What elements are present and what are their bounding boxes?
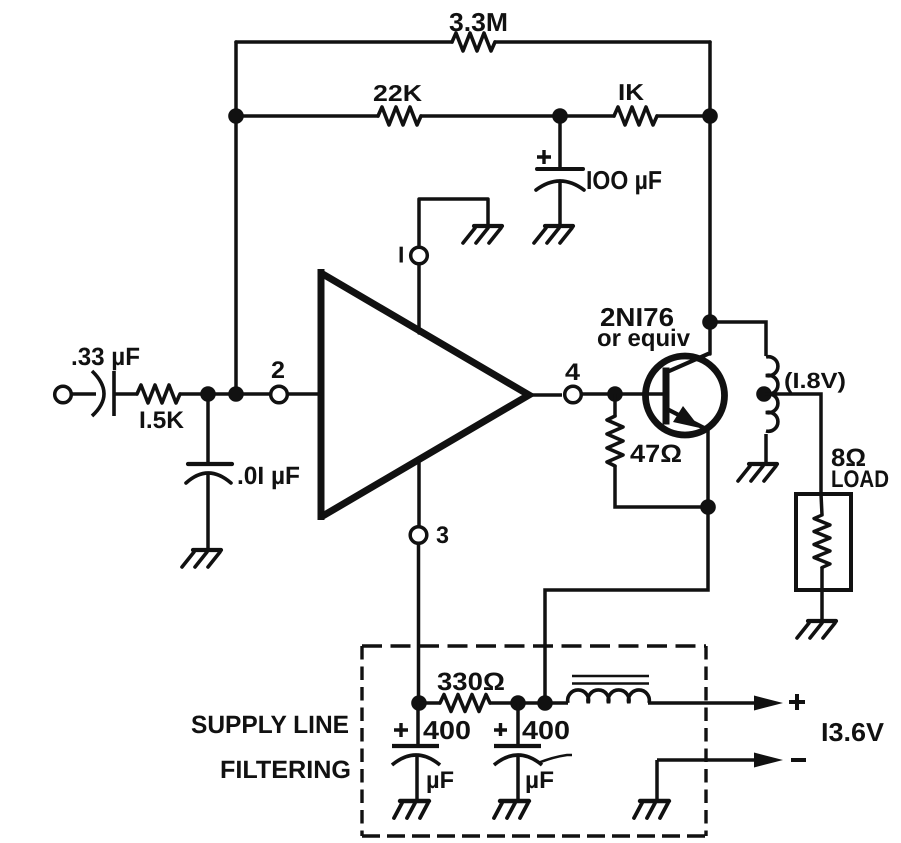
wire second rail middle segment — [421, 114, 614, 118]
choke coil bumps — [568, 690, 650, 703]
node dot base junction — [607, 386, 623, 402]
wire load top lead — [821, 494, 822, 515]
choke coil core lines — [572, 676, 649, 684]
plus output arrowhead — [754, 696, 783, 711]
svg-text:3.3M: 3.3M — [449, 7, 508, 37]
ground cap2 — [494, 801, 529, 818]
svg-text:µF: µF — [426, 767, 454, 794]
svg-text:or equiv: or equiv — [597, 325, 691, 352]
wire pin2 to triangle — [289, 392, 321, 396]
wire right vertical rail — [708, 42, 712, 354]
wire collector node to coil — [710, 322, 766, 356]
wire 100uF top lead — [558, 116, 562, 167]
svg-text:3: 3 — [436, 522, 449, 549]
pin 4 terminal circle — [565, 386, 582, 403]
capacitor 100uF plates — [537, 167, 583, 171]
supply filter dashed box — [362, 646, 706, 836]
wire .01uF top lead — [186, 401, 232, 549]
wire resistor to op-amp input — [180, 392, 289, 396]
wire emitter down — [545, 428, 708, 703]
capacitor .33uF straight plate — [112, 371, 116, 416]
node dot coil tap — [756, 386, 772, 402]
wire 100uF bottom lead — [558, 181, 562, 225]
node dot emitter branch junction — [537, 695, 553, 711]
ground 100uF — [534, 226, 573, 243]
capacitor 400uF #2 leads — [516, 703, 520, 800]
svg-text:SUPPLY LINE: SUPPLY LINE — [191, 711, 349, 739]
svg-text:IOO µF: IOO µF — [586, 165, 662, 195]
label minus — [791, 758, 806, 762]
node dot input junction — [200, 386, 216, 402]
label + 400 #1 — [394, 723, 408, 737]
svg-text:2: 2 — [271, 357, 285, 384]
wire cap to resistor — [114, 392, 137, 396]
input terminal circle — [55, 386, 72, 403]
ground load — [797, 621, 836, 638]
wire 47ohm top lead — [613, 394, 617, 416]
capacitor 400uF #2 plates — [494, 744, 541, 748]
transistor base bar — [663, 368, 670, 425]
wire top feedback rail right segment — [495, 40, 710, 44]
ground .01uF — [182, 550, 221, 567]
pin 3 wire down to filter box — [417, 544, 421, 703]
node dot collector junction — [702, 314, 718, 330]
svg-text:47Ω: 47Ω — [630, 440, 682, 468]
svg-text:22K: 22K — [373, 80, 422, 106]
wire pin1 to op-amp top edge — [417, 264, 421, 333]
node dot 100uF junction — [552, 108, 568, 124]
wire top feedback rail left segment — [236, 40, 452, 44]
node dot filter input — [411, 695, 427, 711]
capacitor 400uF #1 leads — [417, 703, 418, 800]
svg-text:400: 400 — [423, 715, 471, 745]
stray pen mark — [538, 755, 572, 763]
ground cap1 — [394, 801, 429, 818]
wire to plus output — [648, 701, 758, 705]
svg-text:I: I — [398, 242, 404, 268]
svg-text:I3.6V: I3.6V — [821, 717, 885, 747]
wire second rail left segment — [236, 114, 378, 118]
node dot cap2 junction — [510, 695, 526, 711]
op-amp U1 triangle — [321, 269, 529, 520]
resistor 1.5K zigzag — [137, 385, 180, 403]
svg-text:400: 400 — [522, 715, 570, 745]
svg-text:330Ω: 330Ω — [437, 668, 505, 696]
pin 1 terminal circle — [411, 247, 428, 264]
wire tap to load — [765, 394, 821, 494]
svg-text:FILTERING: FILTERING — [220, 756, 351, 784]
wire input to coupling cap — [72, 392, 96, 396]
wire filter rail — [419, 701, 440, 705]
svg-text:.0I µF: .0I µF — [237, 462, 300, 490]
wire op-amp output to pin4 — [529, 393, 562, 397]
wire left vertical rail — [234, 42, 238, 394]
resistor 330ohm zigzag — [440, 695, 490, 712]
svg-text:4: 4 — [565, 359, 581, 386]
svg-text:LOAD: LOAD — [831, 466, 889, 493]
transistor Q1 2N176 circle — [646, 356, 725, 435]
ground coil — [738, 464, 777, 481]
node dot top-right rail — [702, 108, 718, 124]
wire pin4 to transistor base — [582, 392, 665, 396]
wire to minus output — [657, 760, 758, 799]
svg-text:.33 µF: .33 µF — [71, 343, 140, 371]
resistor 1K zigzag — [614, 107, 657, 125]
capacitor .33uF curved plate — [92, 371, 104, 416]
label + 400 #2 — [494, 723, 507, 736]
load box — [796, 494, 851, 590]
svg-text:I.5K: I.5K — [139, 407, 185, 434]
minus output arrowhead — [754, 753, 783, 768]
transistor collector line — [667, 354, 709, 373]
pin 2 terminal circle — [271, 386, 288, 403]
wire .01uF bottom lead — [206, 474, 210, 549]
label plus — [789, 694, 805, 710]
transistor emitter line with arrow — [667, 409, 708, 430]
resistor 22K zigzag — [378, 107, 421, 125]
wire pin1 to ground — [419, 199, 488, 245]
inductor output coil — [766, 357, 778, 432]
wire load bottom lead — [820, 567, 824, 620]
label + of 100uF — [537, 150, 551, 164]
svg-text:IK: IK — [618, 79, 644, 105]
svg-text:µF: µF — [525, 767, 554, 794]
ground pin1 — [463, 226, 502, 243]
wire 47ohm bottom lead — [615, 466, 704, 507]
resistor 3.3M zigzag — [452, 33, 495, 51]
wire 330 to coil — [490, 701, 568, 705]
resistor 8ohm load zigzag — [814, 515, 830, 568]
ground minus — [634, 801, 669, 818]
wire coil bottom to ground — [764, 434, 768, 463]
node dot top-left rail — [228, 108, 244, 124]
resistor 47ohm zigzag — [607, 416, 623, 466]
node dot emitter/47ohm junction — [700, 499, 716, 515]
wire second rail right segment — [657, 114, 710, 118]
pin 3 wire from op-amp bottom edge — [417, 459, 421, 526]
pin 3 terminal circle — [410, 527, 427, 544]
node dot rail junction — [228, 386, 244, 402]
capacitor 400uF #1 plates — [392, 744, 439, 748]
capacitor .01uF plates — [188, 462, 232, 466]
svg-text:(I.8V): (I.8V) — [784, 368, 846, 393]
